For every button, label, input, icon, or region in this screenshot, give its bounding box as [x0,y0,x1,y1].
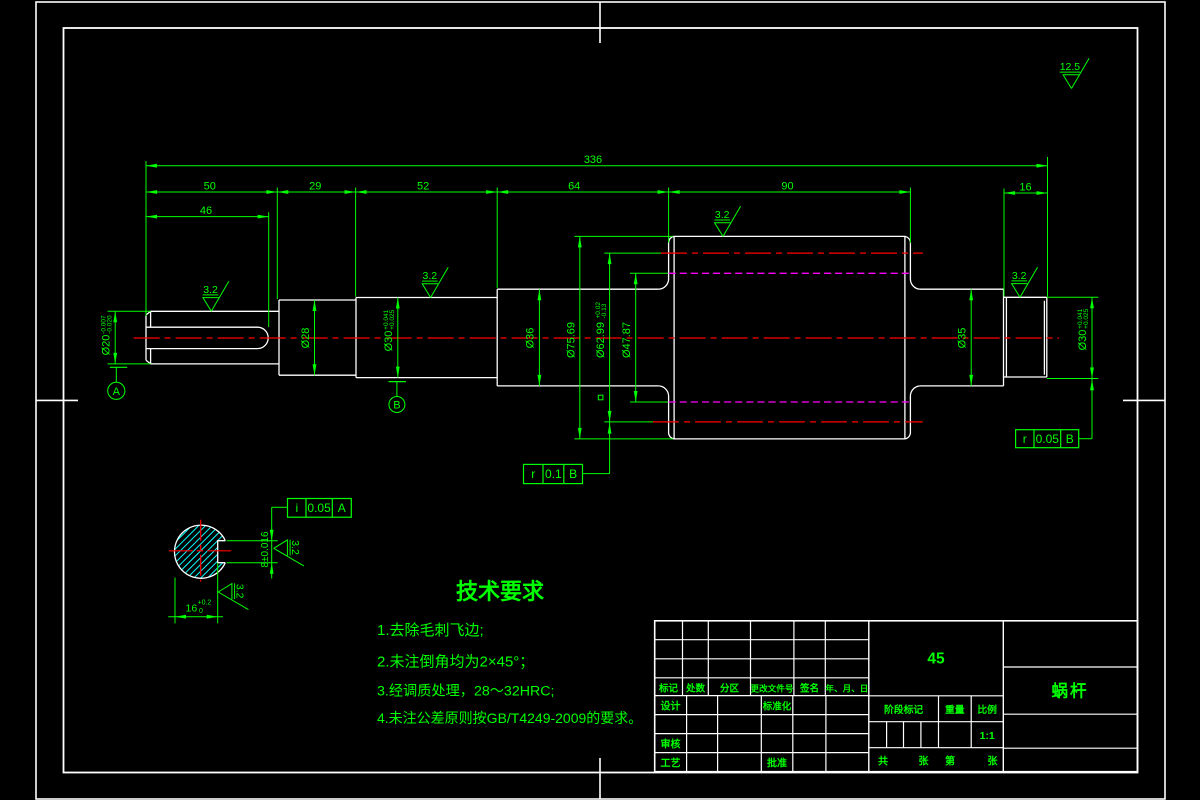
dimension 336 overall length [146,165,1048,167]
section centre mark vertical [200,520,202,582]
svg-text:+0.025: +0.025 [389,309,396,329]
dimension diameter 35 [970,289,972,386]
centering mark right [1123,399,1165,401]
extension line worm left [668,188,670,243]
svg-text:+0.2: +0.2 [198,600,212,607]
roughness 3.2 on keyway side [274,540,304,566]
svg-text:r: r [531,467,535,481]
svg-text:0: 0 [199,608,203,615]
worm body outline with fillets [658,236,920,289]
title block scale value row [869,747,1004,749]
dimension 52 [356,191,498,193]
svg-text:29: 29 [309,180,321,192]
dimension diameter 28 [314,300,316,375]
svg-text:更改文件号: 更改文件号 [751,683,794,694]
shaft section 1 outline (keyed end) [146,311,279,364]
svg-text:技术要求: 技术要求 [456,579,544,604]
section centre mark horizontal [169,550,236,552]
svg-text:B: B [1066,432,1074,446]
shoulder step 1-2 [278,300,280,375]
dimension diameter 20 with extension lines [108,310,151,312]
dimension 50 [146,191,277,193]
shaft section 4 outline [497,289,658,386]
svg-text:年、月、日: 年、月、日 [825,683,868,694]
extension line keyway end [268,212,270,327]
svg-text:3.2: 3.2 [289,540,301,555]
dimension 46 keyway length [146,216,269,218]
svg-text:52: 52 [417,180,429,192]
svg-text:45: 45 [927,651,945,668]
svg-text:8±0.016: 8±0.016 [260,531,271,568]
roughness 3.2 on right end [1011,267,1037,297]
svg-text:r: r [1023,432,1027,446]
shaft section 7 outline (right end) [1004,297,1047,377]
shaft section 2 outline [279,300,356,375]
centering mark top [599,2,601,43]
svg-text:处数: 处数 [685,683,706,695]
svg-text:Ø47.87: Ø47.87 [621,322,633,358]
shoulder step 3-4 [496,289,498,386]
svg-text:标准化: 标准化 [762,701,792,713]
svg-text:Ø35: Ø35 [957,328,969,349]
circular runout frame r 0.1 B with leader [524,464,583,483]
centering mark bottom [599,758,601,799]
roughness 12.5 general note [1060,58,1089,88]
svg-text:设计: 设计 [661,700,681,713]
extension line step 3-4 [496,188,498,289]
small square mark [598,395,603,400]
dimension diameter 75.69 worm tip with extension lines [574,235,673,237]
svg-text:3.2: 3.2 [715,209,730,221]
dimension diameter 30 right end with extension lines [1047,296,1099,298]
shaft section 6 outline [920,289,1004,386]
svg-text:B: B [393,400,400,412]
svg-text:-0.13: -0.13 [601,303,608,318]
svg-text:1.去除毛刺飞边;: 1.去除毛刺飞边; [377,622,484,639]
svg-text:Ø62.99: Ø62.99 [595,322,607,358]
title block signature table [655,714,869,716]
svg-text:+0.025: +0.025 [1083,308,1090,328]
roughness 3.2 on keyway flat [218,583,248,609]
roughness 3.2 on section 3 [422,267,448,297]
svg-text:重量: 重量 [945,703,965,716]
centering mark left [36,399,78,401]
title block outer frame [655,621,1138,772]
svg-text:阶段标记: 阶段标记 [884,703,923,716]
right end chamfer lines [1006,297,1044,377]
svg-text:批准: 批准 [767,757,787,770]
svg-text:Ø20: Ø20 [101,335,113,356]
svg-text:1:1: 1:1 [980,730,995,742]
svg-text:第: 第 [945,755,955,768]
svg-text:0.05: 0.05 [307,501,331,515]
svg-text:Ø36: Ø36 [525,328,537,349]
title block right column dividers [1002,621,1004,772]
roughness 3.2 on section 1 [203,281,229,311]
svg-text:B: B [569,467,577,481]
dimension diameter 62.99 worm pitch with extension lines [604,252,661,254]
svg-text:0.1: 0.1 [545,467,562,481]
svg-text:比例: 比例 [977,703,997,716]
svg-text:工艺: 工艺 [661,757,681,770]
svg-text:90: 90 [781,180,793,192]
dimension 64 [497,191,668,193]
svg-text:336: 336 [584,154,602,166]
title block material cell 45 [869,695,1004,697]
svg-text:3.2: 3.2 [234,584,246,599]
datum A symbol [110,366,127,368]
title block stage weight scale row [869,721,1004,723]
dimension 29 [277,191,355,193]
worm root line top [669,272,911,274]
svg-text:签名: 签名 [799,683,819,695]
extension line left end [145,161,147,316]
svg-text:3.2: 3.2 [422,270,437,282]
dimension diameter 36 [538,289,540,386]
svg-text:Ø30: Ø30 [1077,330,1089,351]
title block revision table [655,639,869,641]
svg-text:分区: 分区 [720,683,740,695]
svg-text:i: i [295,501,298,515]
svg-text:16: 16 [186,603,198,615]
shoulder step 6-7 [1003,289,1005,386]
worm pitch line bottom [653,421,923,423]
svg-text:共: 共 [878,755,888,768]
svg-text:3.2: 3.2 [1012,270,1027,282]
svg-text:0.05: 0.05 [1036,432,1060,446]
svg-text:审核: 审核 [661,738,681,751]
svg-text:4.未注公差原则按GB/T4249-2009的要求。: 4.未注公差原则按GB/T4249-2009的要求。 [377,710,642,726]
svg-text:张: 张 [988,755,999,768]
svg-text:3.2: 3.2 [203,284,218,296]
svg-text:12.5: 12.5 [1060,61,1081,73]
svg-text:A: A [338,501,346,515]
keyway slot in section view [218,541,226,563]
svg-text:Ø75.69: Ø75.69 [566,322,578,358]
svg-text:蜗杆: 蜗杆 [1052,682,1089,701]
dimension 16 [1004,192,1048,194]
shoulder step 2-3 [355,298,357,378]
svg-text:A: A [113,386,121,398]
svg-text:16: 16 [1019,181,1031,193]
svg-text:Ø28: Ø28 [300,328,312,349]
dimension 8 keyway width with extension lines [227,540,278,542]
dimension diameter 47.87 worm root with extension lines [630,272,668,274]
svg-text:张: 张 [919,755,930,768]
svg-text:3.经调质处理，28～32HRC;: 3.经调质处理，28～32HRC; [377,684,554,700]
extension line step 6-7 [1003,189,1005,297]
keyway section circle outline [174,525,225,578]
svg-text:-0.020: -0.020 [107,315,114,334]
parallelism frame 0.05 A with leader [288,499,352,518]
svg-text:标记: 标记 [658,683,679,695]
main axis centre line [134,337,1059,339]
svg-text:2.未注倒角均为2×45°；: 2.未注倒角均为2×45°； [377,654,534,671]
worm pitch line top [661,252,923,254]
extension line step 2-3 [355,188,357,297]
extension line step 1-2 [276,188,278,300]
keyway slot on section 1 [146,327,268,348]
worm end chamfer line left [673,236,675,439]
dimension 90 worm length [669,191,911,193]
svg-text:50: 50 [204,180,216,192]
worm end chamfer line right [904,236,906,439]
svg-text:46: 46 [200,205,212,217]
circular runout frame r 0.05 B with leader [1016,430,1079,448]
dimension diameter 30 with datum B [397,298,399,378]
worm root line bottom [669,401,911,403]
roughness 3.2 on worm [714,206,740,236]
dimension 16 keyway depth with extension lines [174,578,176,624]
extension line right end [1047,157,1049,297]
shaft section 3 outline [356,298,497,378]
extension line worm right [909,188,911,244]
svg-text:Ø30: Ø30 [383,331,395,352]
svg-text:64: 64 [568,180,580,192]
